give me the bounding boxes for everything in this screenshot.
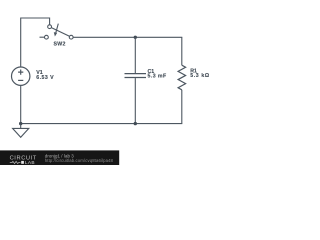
footer logo resistor line + LAB [10,161,21,163]
resistor R1 [178,37,186,123]
wire from top node down to C1 top plate [134,37,136,73]
wire from C1 bottom plate down to bottom node [134,78,136,124]
V1 minus sign [18,79,23,81]
SW2 actuator arrowhead [54,33,57,36]
wire from V1 bottom to ground node [20,85,22,123]
ground [13,124,29,138]
SW2 pin 3 terminal (right throw) [69,35,73,39]
footer bar [0,150,119,165]
wire from V1 top up and right to switch SW2 top terminal [21,18,50,67]
bottom wire from ground node to R1 bottom [21,123,183,125]
svg-text:SW2: SW2 [54,42,66,48]
V1 plus sign [18,70,23,75]
ground triangle [13,128,29,137]
V1 circle body [12,67,30,85]
C1 top plate [125,73,147,75]
voltage source V1 [12,67,30,85]
wire from top-right corner down to R1 [181,37,183,65]
wire stub at SW2 unused throw [40,36,45,38]
svg-text:5.3 kΩ: 5.3 kΩ [190,73,210,79]
svg-text:5.3 mF: 5.3 mF [148,74,168,80]
node junction at V1 bottom / ground [19,122,22,125]
node junction at C1 bottom [134,122,137,125]
svg-text:http://circuitlab.com/cvq8ta6i: http://circuitlab.com/cvq8ta6ilpa48 [45,158,114,163]
ground stub wire [20,124,22,129]
C1 bottom plate [125,77,147,79]
SW2 blade [51,28,70,37]
svg-text:LAB: LAB [25,160,35,165]
SW2 actuator arrow shaft [56,24,59,33]
node junction at C1 top [134,36,137,39]
wire from SW2 right terminal to top-right corner [73,36,182,38]
wire from R1 down to bottom-right corner [181,90,183,124]
SW2 pin 2 terminal (unused throw, left) [45,35,49,39]
switch SW2 [40,24,74,39]
R1 zigzag body [178,65,186,90]
svg-text:6.53 V: 6.53 V [36,75,54,81]
capacitor C1 [125,37,147,123]
SW2 pin 1 terminal (common, top) [48,25,52,29]
